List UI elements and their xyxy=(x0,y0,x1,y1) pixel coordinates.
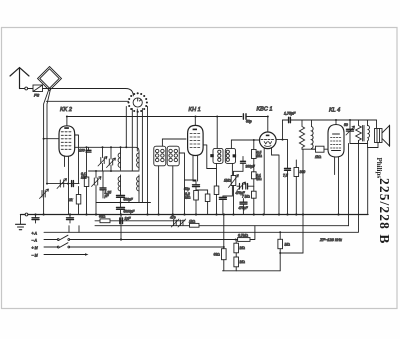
capacitor agc series xyxy=(237,184,254,190)
wire grid return long vertical xyxy=(302,215,304,254)
wire antenna to connector xyxy=(20,88,25,90)
svg-text:50: 50 xyxy=(344,123,348,127)
wire IFT2 right branch xyxy=(179,153,184,215)
resistor 0.1M diode load xyxy=(252,169,257,191)
svg-text:7,5: 7,5 xyxy=(283,174,288,178)
wire IFT1 to KH1 grid xyxy=(162,139,186,146)
wire KK2 screen right xyxy=(75,135,79,184)
wire bus to bias chain xyxy=(223,215,225,249)
wire IFT1 secondary down xyxy=(158,166,160,215)
trimmer capacitor T1 xyxy=(98,147,107,171)
wire grid coil rail xyxy=(75,147,139,151)
resistor chain upper xyxy=(234,240,239,253)
resistor 0.7M bias xyxy=(238,226,255,242)
wire speaker return to bus xyxy=(368,143,378,215)
fuse FS xyxy=(33,85,43,92)
ground bus xyxy=(21,214,369,216)
svg-text:+ M: + M xyxy=(32,246,38,250)
capacitor bypass g1 xyxy=(32,215,39,224)
svg-text:50p: 50p xyxy=(246,119,252,123)
svg-text:47p: 47p xyxy=(170,216,176,220)
capacitor 1uF filament xyxy=(120,218,123,224)
svg-text:MΩ: MΩ xyxy=(240,246,246,250)
svg-text:1,75µF: 1,75µF xyxy=(284,112,296,116)
wire pot top link xyxy=(234,170,244,172)
svg-text:− A: − A xyxy=(32,239,38,243)
wire speaker top feed xyxy=(376,120,378,129)
wire KK2 grid left xyxy=(44,138,59,140)
wire speaker bottom rail xyxy=(350,143,368,145)
battery row minus M xyxy=(44,253,89,256)
resistor 0.1M xyxy=(84,147,89,214)
wire switch contact 4 xyxy=(141,109,143,203)
IF transformer IFT2 xyxy=(167,146,179,166)
frame aerial diamond xyxy=(38,67,62,91)
output transformer core xyxy=(363,126,364,142)
wire anode coupling vertical xyxy=(282,120,284,140)
wire IFT3 secondary top to diode xyxy=(231,140,259,148)
choke coil interstage xyxy=(312,120,316,149)
wire top signal rail xyxy=(67,116,242,118)
capacitor 7.5 xyxy=(285,169,291,215)
resistor 63 ohm filament xyxy=(100,219,110,223)
wire KBC1 anode right xyxy=(276,139,288,141)
svg-text:0,7MΩ: 0,7MΩ xyxy=(238,234,249,238)
resistor 0.5M xyxy=(252,150,257,170)
resistor grid stopper 1k xyxy=(316,146,329,152)
battery row plus A xyxy=(44,226,358,233)
capacitor 50p KH1 xyxy=(193,185,200,187)
svg-text:100: 100 xyxy=(79,149,85,153)
capacitor 300p xyxy=(241,157,246,172)
resistor 1k KH1 xyxy=(214,186,219,215)
wire KK2 anode to top rail xyxy=(66,117,68,126)
tube KK2 xyxy=(59,126,75,157)
svg-text:470pF: 470pF xyxy=(239,206,249,210)
resistor grid leak zigzag xyxy=(299,120,304,149)
wire KK2 cathode down xyxy=(65,156,69,215)
svg-text:KBC 1: KBC 1 xyxy=(257,107,273,113)
svg-text:FS: FS xyxy=(34,93,39,98)
battery row minus A xyxy=(44,235,238,240)
variable capacitor C1 tuning xyxy=(57,179,67,189)
wire diamond outer lead xyxy=(44,90,49,215)
wire tuning line xyxy=(47,183,79,185)
wire grid node xyxy=(302,149,316,214)
coil L2 upper xyxy=(137,151,139,170)
heater rail A xyxy=(95,220,185,222)
wire bus tap to minus A xyxy=(120,215,122,240)
wire KBC1 diode load xyxy=(253,140,255,150)
svg-text:225/228 B: 225/228 B xyxy=(377,178,392,245)
variable capacitor C2 xyxy=(40,189,49,199)
svg-text:Philips: Philips xyxy=(375,158,383,179)
wire KBC1 cathode legs xyxy=(264,148,279,215)
svg-text:− M: − M xyxy=(32,254,38,258)
wire fuse to band switch xyxy=(43,89,134,96)
resistor 300 ohm xyxy=(294,160,299,215)
wire lower left rail xyxy=(96,202,151,204)
wire rail B to transformer xyxy=(348,144,350,226)
IF transformer IFT1 xyxy=(154,146,166,166)
heater rail B xyxy=(95,225,349,227)
svg-text:KK 2: KK 2 xyxy=(60,107,72,113)
wire connector to fuse xyxy=(28,88,33,90)
chassis connector xyxy=(25,213,28,216)
svg-text:MΩ: MΩ xyxy=(285,243,291,247)
ground symbol xyxy=(16,215,26,230)
svg-text:1kΩ: 1kΩ xyxy=(189,219,196,223)
svg-text:2k: 2k xyxy=(68,198,73,202)
wire switch contact 2 xyxy=(131,109,133,172)
wire KBC1 grid up xyxy=(267,117,269,133)
svg-text:1MΩ: 1MΩ xyxy=(224,179,231,183)
wire switch contact 5 xyxy=(147,107,149,215)
variable capacitor 470p xyxy=(237,182,246,191)
svg-text:KH 1: KH 1 xyxy=(189,107,201,113)
resistor chain lower xyxy=(234,253,239,271)
IF transformer IFT3 secondary xyxy=(225,148,236,163)
IF transformer IFT3 primary xyxy=(210,148,223,163)
capacitor bypass g2 xyxy=(67,215,74,224)
svg-text:MΩ: MΩ xyxy=(240,260,246,264)
battery row plus M xyxy=(44,243,224,248)
wire IFT3 secondary bottom xyxy=(223,163,233,196)
wire diode return xyxy=(185,179,197,181)
wire to band switch lower xyxy=(46,100,128,102)
trimmer 47p b xyxy=(178,219,186,227)
svg-text:63Ω: 63Ω xyxy=(214,253,221,257)
svg-text:1kΩ: 1kΩ xyxy=(315,155,322,159)
capacitor 100p lower a xyxy=(117,193,125,208)
svg-text:ZF~128 kHz: ZF~128 kHz xyxy=(319,237,342,242)
wire trimmer bottom rail xyxy=(89,170,140,172)
wire bias mid rail xyxy=(280,252,303,254)
wire switch contact 3 xyxy=(136,109,138,151)
resistor 7M xyxy=(252,191,257,214)
svg-text:+ A: + A xyxy=(32,231,38,235)
svg-text:300pF: 300pF xyxy=(246,165,256,169)
wire IFT2 down xyxy=(172,166,174,215)
svg-text:63Ω: 63Ω xyxy=(99,215,106,219)
tube KBC1 xyxy=(260,132,277,149)
svg-text:300: 300 xyxy=(300,170,306,174)
svg-text:KL 4: KL 4 xyxy=(329,108,340,114)
svg-text:1µF: 1µF xyxy=(125,217,132,221)
wire switch contact 1 xyxy=(125,107,127,148)
band selector switch S1 xyxy=(127,92,148,112)
wire KL4 screen down xyxy=(334,157,336,175)
trimmer 47p a xyxy=(171,219,179,227)
wire IFT3 primary bottom xyxy=(216,163,218,186)
capacitor 470p lower xyxy=(240,199,247,215)
resistor 63 bias xyxy=(222,249,227,271)
variable capacitor C3 xyxy=(92,171,102,215)
capacitor 100p xyxy=(86,147,91,152)
wire anode load vertical xyxy=(287,140,289,169)
resistor bias xyxy=(196,190,210,215)
resistor 0.2M xyxy=(194,187,199,215)
coil L1 lower xyxy=(118,175,120,193)
capacitor padder xyxy=(72,181,74,187)
wire KH1 cathode down xyxy=(193,156,198,185)
wire KH1 anode up xyxy=(194,117,196,126)
resistor 1M xyxy=(278,232,283,270)
connector plug xyxy=(25,87,28,90)
svg-text:7 MΩ: 7 MΩ xyxy=(242,194,250,198)
wire KH1 anode side to IFT3 xyxy=(203,145,216,169)
wire IFT3 primary top to rail xyxy=(216,117,218,149)
tube KH1 xyxy=(188,125,204,155)
output transformer primary zigzag xyxy=(356,120,362,144)
trimmer tone capacitor xyxy=(346,120,355,144)
resistor 2k xyxy=(76,187,81,215)
wire transformer primary to plus A xyxy=(358,141,360,233)
capacitor 1.25u xyxy=(100,171,106,198)
tube KL4 xyxy=(328,125,344,158)
trimmer capacitor T2 xyxy=(107,147,116,171)
capacitor 1.75u coupling xyxy=(283,117,377,122)
output transformer secondary coil xyxy=(368,120,370,148)
svg-text:500pF: 500pF xyxy=(124,198,134,202)
wire KL4 anode up xyxy=(335,120,337,125)
coil L2 lower xyxy=(137,175,139,203)
wire diamond inner lead xyxy=(47,89,51,184)
capacitor 50p coupling xyxy=(243,114,267,119)
potentiometer volume 1M xyxy=(229,171,239,214)
capacitor 100p lower b xyxy=(117,208,125,215)
wire KL4 cathode down xyxy=(338,157,340,215)
svg-text:5000pF: 5000pF xyxy=(124,209,136,213)
antenna xyxy=(10,68,29,89)
wire bias bottom rail xyxy=(223,270,281,272)
coil L1 upper xyxy=(118,147,120,170)
loudspeaker xyxy=(375,126,390,147)
resistor 1k filament xyxy=(190,223,200,227)
capacitor 50p detector xyxy=(219,196,226,215)
svg-text:50p: 50p xyxy=(184,187,190,191)
